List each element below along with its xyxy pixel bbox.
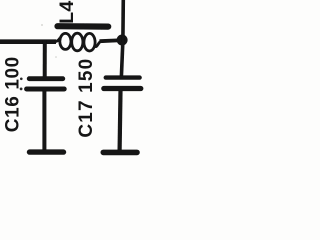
svg-text:C17 150: C17 150 <box>76 58 97 138</box>
faint scan speck right of C16 wire <box>55 56 57 58</box>
wire right vertical (top to C17) <box>121 0 123 77</box>
faint scan speck top-left <box>41 24 43 26</box>
capacitor C16 bottom plate <box>27 87 65 92</box>
bottom terminal bar right <box>103 150 137 156</box>
node junction dot <box>117 35 128 46</box>
inductor L4 core bar <box>58 23 109 30</box>
wire left branch vertical <box>43 41 47 78</box>
wire coil to junction <box>100 39 119 44</box>
svg-text:C16 100: C16 100 <box>2 56 23 132</box>
svg-text:L4: L4 <box>56 0 78 23</box>
speck left of C16 top plate <box>20 78 23 81</box>
capacitor C16 top plate <box>29 76 63 81</box>
wire C17 to bottom bar <box>117 91 122 151</box>
inductor L4 coil loops <box>55 33 101 51</box>
capacitor C17 bottom plate <box>104 86 141 91</box>
capacitor C17 top plate <box>106 75 140 79</box>
wire C16 to bottom bar <box>42 91 46 151</box>
speck left of C16 bottom plate <box>20 88 23 91</box>
wire top-left horizontal <box>0 39 56 44</box>
bottom terminal bar left <box>30 149 64 154</box>
